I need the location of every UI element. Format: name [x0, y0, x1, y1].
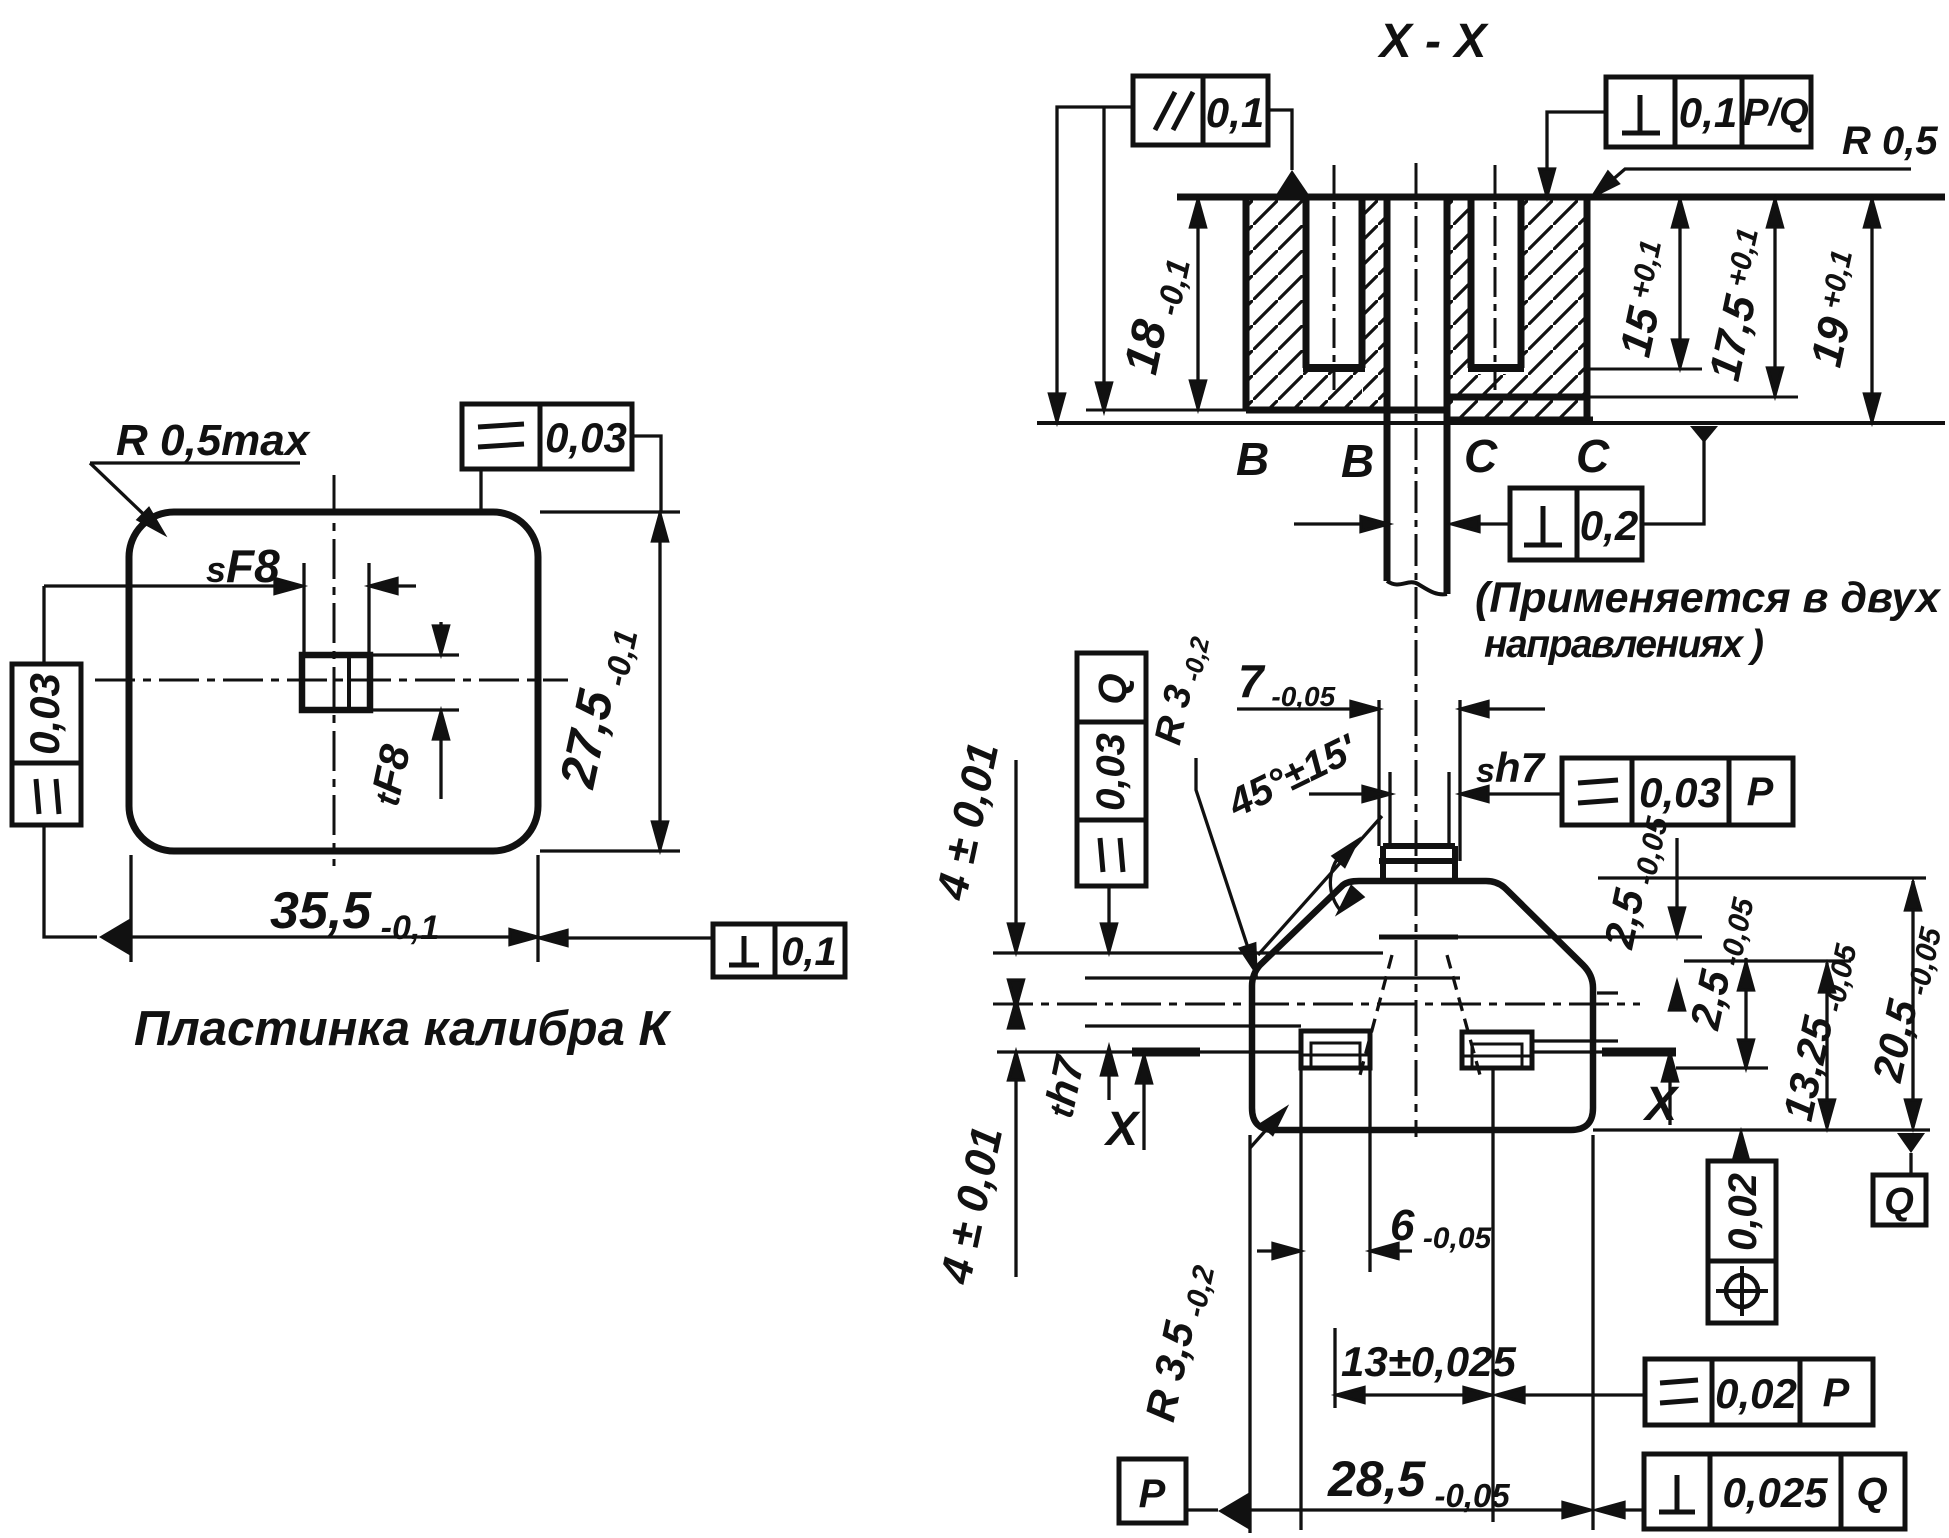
bottom edge right portion: [1450, 417, 1593, 424]
dimension 4+-0.01 lower: [1014, 1055, 1017, 1277]
dashed projector left: [1360, 955, 1392, 1075]
slot B floor: [1303, 364, 1365, 372]
section title X-X: [1377, 15, 1490, 68]
dimension 15+0.1: [1678, 199, 1681, 367]
centerline slot C: [1494, 165, 1497, 390]
arrow at tongue left: [1294, 522, 1384, 525]
leader of 0.02P frame: [1500, 1393, 1645, 1396]
slot C left wall: [1468, 197, 1475, 368]
slot C right wall: [1518, 197, 1525, 368]
slot C floor: [1468, 364, 1524, 372]
svg-text:Q: Q: [1884, 1181, 1914, 1223]
leader bottom leg of left frame: [44, 825, 97, 937]
svg-text:27,5 -0,1: 27,5 -0,1: [549, 621, 645, 795]
svg-text:X: X: [1642, 1078, 1680, 1131]
section trace line left: [997, 1050, 1132, 1053]
left side horizontal line 1026: [1085, 1024, 1301, 1027]
leader of perpendicularity frame plate: [543, 936, 713, 939]
right side horizontal line 961: [1684, 959, 1851, 962]
extension 17.5 level: [1587, 396, 1798, 399]
svg-text:P/Q: P/Q: [1743, 92, 1808, 134]
right side line 1068: [1676, 1066, 1768, 1069]
svg-text:0,02: 0,02: [1715, 1370, 1797, 1417]
leader of vertical frame to line 953: [1107, 886, 1110, 948]
svg-text:P: P: [1823, 1371, 1850, 1415]
label R0.5max with leader: [116, 416, 311, 465]
leader of perpendicularity frame: [1547, 112, 1606, 192]
svg-text:th7: th7: [1035, 1051, 1094, 1121]
frame perpendicularity 0.1 plate: [713, 924, 845, 977]
leader of parallelism frame: [1057, 107, 1133, 416]
svg-text:C: C: [1576, 430, 1610, 482]
base plane line: [1037, 421, 1945, 425]
centerline slot B: [1333, 165, 1336, 390]
svg-text:28,5 -0,05: 28,5 -0,05: [1327, 1451, 1510, 1514]
svg-text:R 0,5: R 0,5: [1842, 119, 1938, 163]
section mark X right: [1668, 1056, 1671, 1125]
right side line 1041: [1532, 1039, 1618, 1042]
dimension tF8: [439, 622, 442, 651]
svg-text:P: P: [1139, 1472, 1166, 1516]
leader top leg of left frame: [42, 586, 45, 664]
frame perpendicularity 0.1 P/Q: [1606, 77, 1811, 147]
tongue top edge: [1383, 843, 1455, 849]
tongue left side: [1380, 846, 1386, 881]
frame Q/0.03/par vertical left: [1077, 653, 1146, 886]
centerline middle slot: [1415, 163, 1418, 648]
svg-text:X - X: X - X: [1377, 15, 1490, 68]
leader of 0.025Q frame: [1600, 1508, 1645, 1511]
dimension 2.5-0.05 second: [1744, 958, 1747, 1065]
hatch right wall: [1521, 199, 1587, 418]
labels B B C C: [1236, 430, 1610, 487]
dimension 4+-0.01 upper: [1014, 760, 1017, 950]
hatch narrow wall 1: [1363, 199, 1387, 408]
angle dimension 45: [1258, 816, 1382, 955]
svg-text:R 3 -0,2: R 3 -0,2: [1147, 630, 1215, 749]
extension lines above tongue: [1377, 700, 1380, 846]
svg-text:0,03: 0,03: [1639, 769, 1721, 816]
dimension sh7: [1309, 792, 1386, 795]
svg-text:13±0,025: 13±0,025: [1341, 1338, 1517, 1385]
note text: [1475, 574, 1942, 666]
right side horizontal line 937: [1379, 935, 1458, 940]
svg-text:0,03: 0,03: [21, 673, 68, 755]
top edge extension: [540, 510, 680, 513]
middle slot left wall / tongue left wall: [1384, 197, 1391, 581]
part outline with chamfers: [1252, 881, 1593, 1130]
svg-text:B: B: [1341, 435, 1374, 487]
hatch narrow wall 2: [1447, 199, 1471, 418]
dimension 13.25-0.05: [1825, 963, 1828, 1127]
frame parallelism 0.03 top: [462, 404, 632, 469]
tongue right side: [1452, 846, 1458, 881]
svg-text:Q: Q: [1091, 673, 1135, 704]
extension lines for tF8: [372, 653, 459, 656]
svg-text:2,5 -0,05: 2,5 -0,05: [1595, 809, 1675, 954]
part left edge: [1243, 194, 1250, 411]
label R0.5 with leader: [1842, 119, 1938, 163]
hatch web under slot C: [1471, 374, 1521, 418]
left slot: [1301, 1031, 1370, 1068]
svg-text:P: P: [1747, 770, 1774, 814]
frame parallelism 0.03 P: [1562, 758, 1793, 825]
svg-text:45°±15': 45°±15': [1220, 726, 1364, 826]
label R3-0.2 with leader: [1147, 630, 1215, 749]
wire second leg: [1102, 107, 1105, 405]
left side horizontal line 953: [993, 951, 1383, 954]
dashed projector right: [1447, 955, 1480, 1075]
bottom edge extension: [540, 849, 680, 852]
frame parallelism 0.1: [1133, 76, 1268, 145]
dimension 6-0.05: [1257, 1249, 1296, 1252]
svg-text:(Применяется в двух: (Применяется в двух: [1475, 574, 1942, 622]
extension of bottom edge to left: [1086, 409, 1246, 412]
section trace line right: [1532, 1050, 1602, 1053]
frame parallelism 0.03 left vertical: [12, 664, 81, 825]
svg-text:B: B: [1236, 433, 1269, 485]
middle slot right wall / tongue right wall: [1444, 197, 1451, 594]
datum triangle on top face: [1276, 170, 1309, 195]
svg-text:C: C: [1464, 430, 1498, 482]
th7 lower arrow: [1107, 1050, 1110, 1100]
svg-text:20,5 -0,05: 20,5 -0,05: [1863, 919, 1948, 1087]
bottom edge extension right: [1593, 1128, 1930, 1131]
svg-text:0,1: 0,1: [1206, 89, 1264, 136]
hole rectangle: [302, 655, 370, 710]
leader of position frame: [1739, 1136, 1742, 1161]
dimension 7-0.05: [1237, 707, 1374, 710]
title: [134, 1002, 671, 1056]
plate vertical centerline: [333, 475, 336, 866]
svg-text:0,03: 0,03: [1089, 733, 1133, 811]
section mark X left: [1142, 1058, 1145, 1150]
svg-text:R 3,5 -0,2: R 3,5 -0,2: [1136, 1258, 1221, 1426]
leader of P box: [1186, 1508, 1218, 1511]
svg-text:35,5 -0,1: 35,5 -0,1: [270, 882, 439, 947]
slot B right wall: [1359, 197, 1366, 368]
dimension 35.5-0.1: [131, 935, 533, 938]
hole inner edge: [347, 655, 351, 710]
frame perpendicularity 0.025 Q: [1644, 1454, 1905, 1529]
top surface line: [1177, 194, 1945, 201]
svg-text:4 ± 0,01: 4 ± 0,01: [927, 738, 1008, 904]
up arrow 2.5 first: [1675, 986, 1678, 1008]
dimension sF8: [44, 584, 297, 587]
verticals below part: [1248, 1135, 1251, 1533]
dimension 2.5-0.05 first: [1675, 838, 1678, 933]
frame perpendicularity 0.2: [1510, 488, 1642, 560]
frame parallelism 0.02 P: [1645, 1359, 1873, 1425]
svg-text:направлениях ): направлениях ): [1484, 623, 1763, 666]
svg-text:4 ± 0,01: 4 ± 0,01: [931, 1122, 1012, 1288]
svg-text:0,02: 0,02: [1721, 1173, 1765, 1251]
bottom edge left portion: [1246, 407, 1450, 414]
svg-text:0,03: 0,03: [545, 414, 627, 461]
hatch left wall: [1246, 199, 1306, 408]
datum triangle on left extension: [99, 918, 131, 956]
dimension 20.5-0.05: [1911, 881, 1914, 1127]
svg-text:6 -0,05: 6 -0,05: [1390, 1201, 1493, 1255]
svg-text:0,1: 0,1: [781, 930, 837, 974]
svg-text:tF8: tF8: [361, 740, 420, 809]
leader left leg of top frame: [479, 469, 482, 510]
right slot: [1462, 1032, 1532, 1068]
dimension 13+-0.025: [1335, 1393, 1493, 1396]
svg-text:17,5 +0,1: 17,5 +0,1: [1700, 225, 1780, 385]
dimension 18-0.1: [1196, 199, 1199, 408]
hatch web under slot B: [1306, 372, 1362, 408]
svg-text:7 -0,05: 7 -0,05: [1238, 655, 1336, 712]
svg-text:0,025: 0,025: [1722, 1469, 1828, 1516]
svg-text:13,25 -0,05: 13,25 -0,05: [1774, 936, 1864, 1126]
datum triangle under base line: [1690, 426, 1718, 443]
extension lines for sF8: [302, 563, 305, 652]
slot B left wall: [1303, 197, 1310, 368]
dimension 17.5+0.1: [1773, 199, 1776, 395]
svg-text:19 +0,1: 19 +0,1: [1802, 247, 1874, 371]
datum box Q: [1873, 1175, 1926, 1225]
svg-text:X: X: [1103, 1103, 1141, 1156]
leader to datum triangle on base line: [1642, 441, 1704, 524]
datum triangle Q under bottom extension: [1897, 1133, 1925, 1153]
symbol //: [1155, 92, 1175, 130]
dimension 27.5-0.1: [632, 436, 661, 512]
part right edge: [1584, 194, 1591, 424]
plate horizontal centerline: [95, 679, 568, 682]
svg-text:R 0,5max: R 0,5max: [116, 416, 311, 465]
top edge extension right: [1598, 876, 1926, 879]
svg-text:18 -0,1: 18 -0,1: [1115, 251, 1198, 380]
tongue break line: [1387, 581, 1447, 594]
plate outline rounded rect: [129, 512, 538, 851]
label R3.5-0.2 with leader: [1136, 1258, 1221, 1426]
svg-text:sF8: sF8: [206, 540, 280, 592]
horizontal centerline of part: [993, 1003, 1640, 1006]
arrow at tongue right: [1456, 522, 1510, 525]
svg-text:0,1: 0,1: [1679, 89, 1737, 136]
svg-text:sh7: sh7: [1476, 744, 1546, 791]
datum box P: [1119, 1459, 1186, 1523]
frame position 0.02 vertical: [1708, 1161, 1776, 1323]
extension lines for 35.5: [129, 855, 132, 962]
svg-text:Q: Q: [1856, 1470, 1887, 1514]
extension 15 level: [1587, 368, 1702, 371]
step edge 17.5 level: [1447, 394, 1587, 401]
svg-text:Пластинка калибра К: Пластинка калибра К: [134, 1002, 671, 1056]
right side stub 993: [1597, 991, 1618, 994]
svg-text:0,2: 0,2: [1580, 502, 1638, 549]
left side horizontal line 978: [1085, 976, 1460, 979]
dimension 28.5-0.05: [1250, 1508, 1589, 1511]
vertical centerline: [1415, 640, 1418, 1137]
tongue seam line: [1379, 858, 1458, 864]
datum triangle P on left extension: [1218, 1492, 1250, 1530]
dimension 19+0.1: [1870, 199, 1873, 421]
